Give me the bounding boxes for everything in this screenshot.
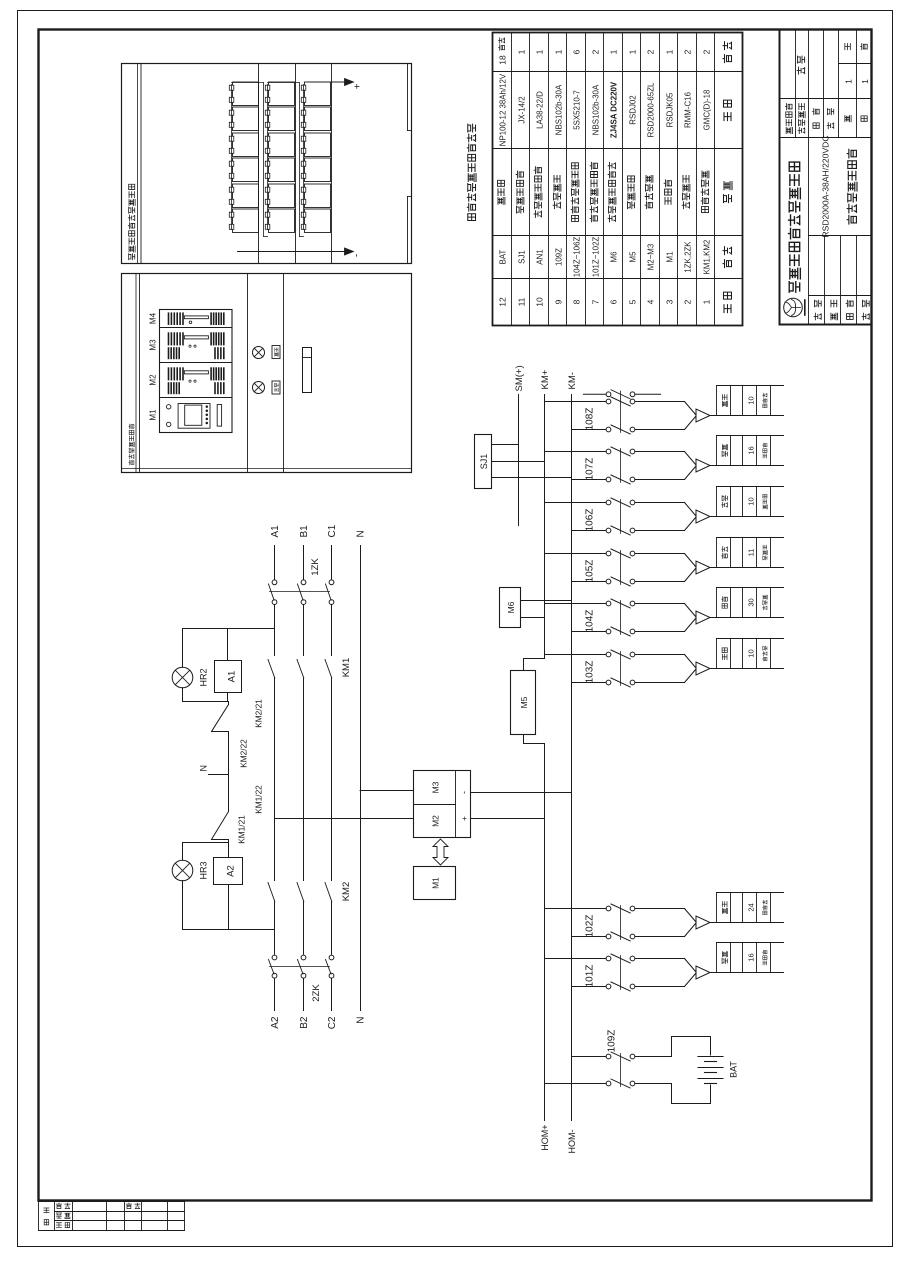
svg-text:KM1/21: KM1/21 xyxy=(237,815,247,844)
svg-text:6: 6 xyxy=(608,299,618,304)
feeder breaker 101Z xyxy=(545,943,784,992)
company logo xyxy=(784,298,805,317)
branch tap input2 xyxy=(183,881,275,930)
svg-text:RSD2000A-38AH/220VDC: RSD2000A-38AH/220VDC xyxy=(821,135,831,237)
equipment cabinet outline xyxy=(122,274,412,473)
svg-text:RSDJK05: RSDJK05 xyxy=(665,92,674,127)
lamp HR2 xyxy=(172,629,208,688)
svg-text:KM2: KM2 xyxy=(341,882,352,902)
phase line B xyxy=(303,546,305,1011)
svg-text:104Z~106Z: 104Z~106Z xyxy=(572,237,581,278)
svg-text:6: 6 xyxy=(571,49,581,54)
svg-text:M6: M6 xyxy=(506,601,516,613)
product model text xyxy=(821,135,831,237)
AC input wires to rectifier xyxy=(275,791,414,819)
svg-text:NP100-12 38Ah/12V: NP100-12 38Ah/12V xyxy=(498,73,507,146)
contactor contacts KM2 xyxy=(268,882,352,902)
svg-text:1: 1 xyxy=(553,49,563,54)
right info rows xyxy=(785,43,870,133)
battery positive output arrow xyxy=(309,79,364,90)
svg-text:1: 1 xyxy=(701,299,711,304)
svg-text:3: 3 xyxy=(664,299,674,304)
step-down module M5 xyxy=(511,671,536,735)
breaker 2ZK xyxy=(269,955,334,1002)
feeder breaker 103Z xyxy=(545,639,784,688)
battery negative output arrow xyxy=(238,248,363,257)
communication double arrow xyxy=(433,839,448,865)
svg-text:5: 5 xyxy=(627,299,637,304)
svg-text:RSDJ02: RSDJ02 xyxy=(628,95,637,124)
svg-text:10: 10 xyxy=(747,396,756,404)
svg-text:1: 1 xyxy=(534,49,544,54)
svg-text:NBS102b-30A: NBS102b-30A xyxy=(591,84,600,135)
battery row 3 (6 cells) xyxy=(301,82,330,233)
svg-text:M1: M1 xyxy=(431,877,441,889)
svg-text:M2: M2 xyxy=(149,374,158,386)
svg-text:AN1: AN1 xyxy=(535,249,544,264)
feeder breaker 104Z xyxy=(545,588,784,637)
svg-text:-: - xyxy=(352,254,363,257)
svg-text:A2: A2 xyxy=(270,1016,281,1029)
svg-text:BAT: BAT xyxy=(498,249,507,264)
panel button 2 xyxy=(272,346,280,359)
terminal block 103Z xyxy=(722,646,767,661)
svg-text:M5: M5 xyxy=(519,696,529,708)
battery row 2 (6 cells) xyxy=(265,82,294,233)
feeder breaker 107Z xyxy=(545,436,784,485)
module rack outline xyxy=(160,310,233,433)
svg-text:10: 10 xyxy=(747,649,756,657)
svg-text:A1: A1 xyxy=(270,525,281,538)
svg-text:2: 2 xyxy=(590,49,600,54)
insulation monitor M6 xyxy=(500,588,572,628)
svg-text:HR2: HR2 xyxy=(199,668,209,686)
terminal block 102Z xyxy=(722,900,767,915)
rectifier module box M2 M3 xyxy=(414,771,471,838)
meter box A2 xyxy=(214,858,243,885)
aux contact KM1/22 xyxy=(212,785,264,844)
svg-text:+: + xyxy=(353,83,364,89)
svg-text:HOM-: HOM- xyxy=(567,1130,577,1154)
svg-text:M1: M1 xyxy=(149,409,158,421)
equipment table title xyxy=(467,124,476,220)
svg-text:KM1/22: KM1/22 xyxy=(254,785,264,814)
svg-text:8: 8 xyxy=(571,299,581,304)
svg-text:KM1: KM1 xyxy=(341,658,352,678)
svg-text:JX-14/2: JX-14/2 xyxy=(517,96,526,123)
sign rows labels xyxy=(814,300,869,320)
terminal block 107Z xyxy=(722,443,767,458)
svg-text:11: 11 xyxy=(747,549,756,557)
svg-text:KM+: KM+ xyxy=(540,369,551,389)
equipment table header row xyxy=(723,42,732,313)
svg-text:A1: A1 xyxy=(227,671,238,683)
svg-text:M1: M1 xyxy=(665,252,674,263)
battery inter-row connector 1 xyxy=(232,83,268,237)
svg-text:NBS102b-30A: NBS102b-30A xyxy=(554,84,563,135)
svg-text:1: 1 xyxy=(860,79,870,84)
battery breaker 109Z xyxy=(545,1030,635,1088)
svg-text:M4: M4 xyxy=(149,312,158,324)
svg-text:2: 2 xyxy=(682,49,692,54)
countersign (huiqian) table bottom-left xyxy=(39,1202,185,1231)
svg-text:10: 10 xyxy=(747,497,756,505)
svg-text:11: 11 xyxy=(516,297,526,306)
equipment cabinet label xyxy=(129,424,134,465)
company name xyxy=(789,162,801,292)
svg-text:108Z: 108Z xyxy=(585,408,596,431)
flash bus SM(+) xyxy=(514,365,525,525)
svg-text:SJ1: SJ1 xyxy=(479,454,489,470)
feeder breaker 106Z xyxy=(545,487,784,536)
negative bus KM-/HOM- xyxy=(567,372,578,1153)
junction wire left xyxy=(183,840,229,858)
svg-text:7: 7 xyxy=(590,299,600,304)
phase labels right A1 B1 C1 N xyxy=(270,524,367,537)
svg-text:1: 1 xyxy=(664,49,674,54)
svg-text:C2: C2 xyxy=(327,1016,338,1029)
door handle xyxy=(303,348,312,393)
terminal block 105Z xyxy=(722,545,768,560)
svg-text:104Z: 104Z xyxy=(585,610,596,633)
svg-text:4: 4 xyxy=(645,299,655,304)
svg-text:1: 1 xyxy=(608,49,618,54)
battery cabinet label xyxy=(128,184,135,260)
svg-text:18: 18 xyxy=(497,55,507,65)
svg-text:LA38-22/D: LA38-22/D xyxy=(535,91,544,129)
svg-text:1: 1 xyxy=(844,79,854,84)
breaker 1ZK xyxy=(269,558,334,605)
svg-text:N: N xyxy=(356,1017,367,1024)
module M3 (rectifier) xyxy=(149,333,224,358)
svg-text:2: 2 xyxy=(682,299,692,304)
terminal block 106Z xyxy=(722,494,768,509)
module M1 (controller) xyxy=(149,404,222,429)
terminal block 101Z xyxy=(722,950,767,965)
module M2 (rectifier) xyxy=(149,368,224,393)
svg-text:SJ1: SJ1 xyxy=(517,250,526,264)
svg-text:1ZK: 1ZK xyxy=(310,558,321,576)
flash relay SJ1 xyxy=(475,435,572,489)
aux contact KM2/21 xyxy=(212,699,264,732)
svg-text:M5: M5 xyxy=(628,251,637,263)
svg-text:SM(+): SM(+) xyxy=(514,365,525,391)
svg-text:N: N xyxy=(199,765,209,772)
module M4 (top unit) xyxy=(149,312,224,324)
svg-text:109Z: 109Z xyxy=(607,1030,618,1053)
battery BAT xyxy=(635,1037,739,1104)
panel lamp 1 xyxy=(253,382,265,394)
svg-text:2: 2 xyxy=(701,49,711,54)
svg-text:M3: M3 xyxy=(149,339,158,351)
svg-text:106Z: 106Z xyxy=(585,509,596,532)
drawing title text xyxy=(847,149,857,224)
svg-text:+: + xyxy=(460,816,469,821)
svg-text:109Z: 109Z xyxy=(554,248,563,266)
svg-text:GMC(D)-18: GMC(D)-18 xyxy=(702,89,711,130)
phase line A xyxy=(274,546,276,1011)
panel button 1 xyxy=(272,381,280,394)
neutral line N xyxy=(360,546,362,1011)
svg-text:1: 1 xyxy=(516,49,526,54)
equipment table grid xyxy=(493,33,743,326)
svg-text:M3: M3 xyxy=(431,781,441,793)
svg-text:KM2/21: KM2/21 xyxy=(254,699,264,728)
closing bus HOM+ (lower segment) xyxy=(524,735,551,1151)
svg-text:10: 10 xyxy=(534,297,544,307)
svg-text:M2: M2 xyxy=(431,815,441,827)
battery cabinet outline xyxy=(122,64,412,264)
svg-text:C1: C1 xyxy=(327,524,338,537)
battery row 1 (6 cells) xyxy=(229,82,258,233)
battery cabinet shelf lines xyxy=(259,64,332,264)
svg-text:ZJ4SA DC220V: ZJ4SA DC220V xyxy=(609,81,618,138)
svg-text:12: 12 xyxy=(497,297,507,307)
svg-text:2: 2 xyxy=(645,49,655,54)
monitor box M1 xyxy=(414,867,456,900)
title block grid xyxy=(780,30,872,325)
rectifier outputs xyxy=(471,793,572,819)
svg-text:103Z: 103Z xyxy=(585,661,596,684)
svg-text:107Z: 107Z xyxy=(585,458,596,481)
svg-text:B2: B2 xyxy=(299,1016,310,1029)
svg-text:1ZK,2ZK: 1ZK,2ZK xyxy=(683,241,692,273)
svg-text:30: 30 xyxy=(747,598,756,606)
control bus KM+ (upper segment with M5 jog) xyxy=(524,369,552,670)
svg-text:101Z~102Z: 101Z~102Z xyxy=(591,237,600,278)
svg-text:102Z: 102Z xyxy=(585,915,596,938)
wire + N stub xyxy=(199,732,249,812)
equipment table rows xyxy=(497,38,711,307)
svg-text:M2~M3: M2~M3 xyxy=(646,243,655,270)
svg-text:101Z: 101Z xyxy=(585,965,596,988)
svg-text:2ZK: 2ZK xyxy=(311,984,322,1002)
svg-text:-: - xyxy=(459,791,469,794)
svg-text:A2: A2 xyxy=(226,865,237,877)
svg-text:KM-: KM- xyxy=(567,372,578,389)
feeder breaker 105Z xyxy=(545,538,784,587)
phase line C xyxy=(331,546,333,1011)
panel lamp 2 xyxy=(253,347,265,359)
junction wire right xyxy=(183,688,229,702)
battery inter-row connector 2 xyxy=(268,83,304,237)
svg-text:HR3: HR3 xyxy=(199,861,209,879)
branch tap input1 xyxy=(183,628,275,630)
svg-text:105Z: 105Z xyxy=(585,560,596,583)
svg-text:N: N xyxy=(356,530,367,537)
contactor contacts KM1 xyxy=(268,658,352,678)
feeder breaker 102Z xyxy=(545,893,784,942)
svg-text:9: 9 xyxy=(553,299,563,304)
svg-text:16: 16 xyxy=(747,446,756,454)
svg-text:HOM+: HOM+ xyxy=(540,1125,550,1151)
terminal block 104Z xyxy=(722,595,768,610)
svg-text:M6: M6 xyxy=(609,251,618,263)
svg-text:1: 1 xyxy=(627,49,637,54)
svg-text:RSD2000-65ZL: RSD2000-65ZL xyxy=(646,82,655,137)
svg-text:RMM-C16: RMM-C16 xyxy=(683,91,692,128)
svg-text:KM2/22: KM2/22 xyxy=(239,739,249,768)
lamp HR3 xyxy=(172,843,208,881)
svg-text:5SX5210-7: 5SX5210-7 xyxy=(572,90,581,129)
svg-text:KM1,KM2: KM1,KM2 xyxy=(702,240,711,275)
svg-text:16: 16 xyxy=(747,953,756,961)
meter box A1 xyxy=(215,629,242,693)
phase labels left A2 B2 C2 N xyxy=(270,1016,367,1029)
svg-text:B1: B1 xyxy=(299,525,310,538)
battery cabinet wall-mount notch xyxy=(408,64,412,264)
terminal block 108Z xyxy=(722,393,767,408)
svg-text:BAT: BAT xyxy=(729,1061,739,1078)
svg-text:24: 24 xyxy=(747,903,756,911)
feeder breaker 108Z xyxy=(545,386,784,435)
